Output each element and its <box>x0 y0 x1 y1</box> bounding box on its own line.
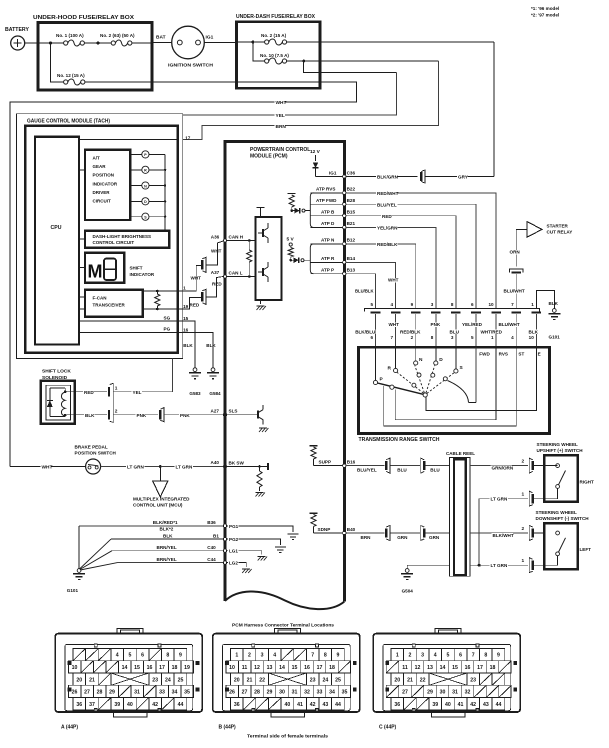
svg-text:WHT: WHT <box>211 248 222 253</box>
svg-text:16: 16 <box>465 665 471 671</box>
wire into upshift box pin2 <box>534 465 544 467</box>
PG1 internal ground in PCM <box>227 526 293 532</box>
TRS contact N <box>415 347 417 361</box>
svg-text:10: 10 <box>488 302 494 307</box>
svg-text:41: 41 <box>458 702 464 708</box>
svg-text:1: 1 <box>522 558 525 564</box>
shift indicator box <box>85 253 124 283</box>
transmission range switch box <box>358 347 549 433</box>
svg-text:CAN H: CAN H <box>229 235 244 240</box>
svg-text:INDICATOR: INDICATOR <box>93 181 118 186</box>
svg-text:C40: C40 <box>207 545 216 550</box>
svg-text:1: 1 <box>396 653 399 659</box>
wire SUPP B16 <box>314 465 345 467</box>
svg-text:STEERING WHEEL: STEERING WHEEL <box>537 442 579 447</box>
wire GRN/ORN to upshift switch <box>470 465 528 467</box>
svg-text:15: 15 <box>134 665 140 671</box>
CAN bus termination resistor PCM <box>247 250 252 262</box>
wire CPU to A/T driver box <box>79 169 85 171</box>
svg-text:B12: B12 <box>347 238 356 243</box>
ground wires converge to G101 left <box>78 526 80 569</box>
svg-text:2: 2 <box>115 409 118 415</box>
wire PNK to PCM A27 <box>164 414 223 416</box>
svg-text:16: 16 <box>147 665 153 671</box>
PCM bottom break wave <box>225 592 344 610</box>
TRS wiper arm solid <box>378 383 424 394</box>
wire RVS terminal <box>384 347 517 426</box>
svg-text:PCM Harness Connector Terminal: PCM Harness Connector Terminal Locations <box>232 622 334 628</box>
wire BLU/WHT relay to column 8 <box>515 274 517 309</box>
diode lower <box>291 259 294 261</box>
svg-text:7: 7 <box>311 653 314 659</box>
svg-text:PNK: PNK <box>137 413 147 418</box>
svg-text:YEL/RED: YEL/RED <box>462 322 483 327</box>
svg-text:40: 40 <box>445 702 451 708</box>
ground G583 <box>193 368 197 372</box>
wire WHT connector to A36 <box>206 241 223 265</box>
transceiver ground hatch <box>260 300 262 304</box>
svg-text:LEFT: LEFT <box>580 547 592 552</box>
svg-text:BLK: BLK <box>206 343 216 348</box>
wire RED solenoid pin1 <box>75 391 107 393</box>
svg-text:44: 44 <box>178 702 184 708</box>
transistor Q2 <box>262 268 264 276</box>
svg-text:12 V: 12 V <box>310 149 321 155</box>
svg-text:14: 14 <box>440 665 446 671</box>
multiplex integrated control unit triangle <box>153 481 168 497</box>
svg-text:CPU: CPU <box>51 225 62 231</box>
svg-text:11: 11 <box>402 665 408 671</box>
svg-text:15: 15 <box>452 665 458 671</box>
svg-text:3: 3 <box>431 302 434 307</box>
wire GRN to cable reel <box>426 532 450 534</box>
wire SG to pin 15 <box>79 320 178 322</box>
svg-text:MODULE (PCM): MODULE (PCM) <box>250 154 288 160</box>
dash-light brightness control circuit box <box>85 231 169 248</box>
connector terminal column 2 <box>391 311 401 313</box>
svg-text:RED: RED <box>382 214 392 219</box>
connector A (44P) shell <box>55 634 202 712</box>
svg-text:ATP N: ATP N <box>321 238 335 243</box>
wire junction down to fuse 12 <box>51 43 64 82</box>
TRS contact S <box>455 347 457 369</box>
wire pin15 BLK to ground G583 <box>178 321 195 368</box>
svg-text:RVS: RVS <box>499 352 508 357</box>
svg-text:B36: B36 <box>207 520 216 525</box>
svg-text:8: 8 <box>166 653 169 659</box>
svg-text:39: 39 <box>432 702 438 708</box>
shift lock solenoid coil <box>61 392 65 416</box>
powertrain control module box <box>225 142 344 602</box>
wire BLK/GRN - GRY from C36 <box>346 176 418 178</box>
svg-text:4: 4 <box>434 653 437 659</box>
svg-text:6: 6 <box>459 653 462 659</box>
svg-text:9: 9 <box>411 302 414 307</box>
svg-text:35: 35 <box>184 690 190 696</box>
wire F-CAN to pin 1 <box>143 290 178 292</box>
svg-text:BRN/YEL: BRN/YEL <box>157 557 177 562</box>
svg-text:No. 1 (100 A): No. 1 (100 A) <box>56 33 84 38</box>
svg-text:17: 17 <box>477 665 483 671</box>
pin A36 CAN H <box>223 239 226 242</box>
svg-text:YEL: YEL <box>133 390 142 395</box>
svg-text:TRANSMISSION RANGE SWITCH: TRANSMISSION RANGE SWITCH <box>359 437 440 443</box>
svg-text:C44: C44 <box>207 557 216 562</box>
svg-text:2: 2 <box>522 459 525 465</box>
wire fuse2 output to right <box>287 41 494 43</box>
connector B (44P) shell <box>213 634 360 712</box>
svg-text:31: 31 <box>452 690 458 696</box>
svg-text:B16: B16 <box>347 460 356 465</box>
A/T gear position indicator driver circuit box <box>85 150 130 220</box>
transistor Q1 <box>262 229 264 237</box>
wire LT GRN junction to A40 <box>160 466 223 468</box>
svg-text:22: 22 <box>259 677 265 683</box>
svg-text:BLK/BLU: BLK/BLU <box>355 329 376 334</box>
svg-text:BLU/WHT: BLU/WHT <box>504 289 525 294</box>
ground G101 right <box>552 309 556 313</box>
svg-text:13: 13 <box>427 665 433 671</box>
svg-text:G584: G584 <box>209 391 221 396</box>
svg-text:6: 6 <box>471 302 474 307</box>
wire ATP N B12 <box>310 243 344 245</box>
wire YEL/GRN ATP D to column 4 <box>346 227 436 308</box>
svg-text:2: 2 <box>522 526 525 532</box>
svg-text:YEL: YEL <box>276 113 285 119</box>
svg-text:44: 44 <box>335 702 341 708</box>
svg-text:WHT: WHT <box>276 100 287 106</box>
svg-text:B22: B22 <box>347 187 356 192</box>
pin A37 CAN L <box>223 275 226 278</box>
svg-text:25: 25 <box>178 677 184 683</box>
wire to fuses junction <box>237 41 265 43</box>
svg-text:POSITION: POSITION <box>93 173 115 178</box>
svg-text:LT GRN: LT GRN <box>491 563 508 568</box>
ignition switch <box>172 26 205 59</box>
svg-text:5: 5 <box>471 335 474 340</box>
wire BRN/YEL LG1 <box>112 550 223 552</box>
connector B (44P) grid <box>231 648 244 660</box>
SUPP pull-up resistor <box>310 445 318 447</box>
SLS transistor ground <box>259 427 267 429</box>
svg-text:BRN: BRN <box>276 124 287 130</box>
svg-text:G101: G101 <box>67 588 79 593</box>
svg-text:RED/BLK: RED/BLK <box>377 242 398 247</box>
wire LT GRN upshift pin 1 <box>479 499 528 566</box>
pull-up resistor upper <box>288 193 296 195</box>
svg-text:33: 33 <box>317 690 323 696</box>
wire RED ATP B to column 5 <box>346 216 456 309</box>
wire WHT fuse12 run (down left side to brake switch) <box>10 82 357 467</box>
svg-text:RED/WHT: RED/WHT <box>377 191 399 196</box>
CAN transceiver box in PCM <box>256 217 282 300</box>
svg-text:3: 3 <box>261 653 264 659</box>
svg-text:1: 1 <box>531 302 534 307</box>
svg-text:SG: SG <box>164 315 171 320</box>
svg-text:5: 5 <box>370 302 373 307</box>
connector upshift pin 1 <box>529 491 533 506</box>
wire to MCU <box>159 467 161 482</box>
svg-text:G101: G101 <box>549 334 561 339</box>
svg-text:YEL/GRN: YEL/GRN <box>377 226 398 231</box>
svg-text:LG2: LG2 <box>229 561 238 566</box>
svg-text:PG: PG <box>164 327 171 332</box>
svg-text:20: 20 <box>76 677 82 683</box>
wire fuse10 branch <box>304 61 397 73</box>
svg-text:No. 12 (15 A): No. 12 (15 A) <box>57 73 85 78</box>
svg-text:ATP P: ATP P <box>321 268 334 273</box>
svg-text:WHT: WHT <box>389 322 400 327</box>
wire SDNP B40 <box>314 532 345 534</box>
wire YEL fuse10 branch down to shift lock <box>183 73 397 116</box>
svg-text:GRY: GRY <box>458 175 468 180</box>
lower wire color labels <box>354 330 375 334</box>
connector downshift pin 1 <box>529 558 533 573</box>
svg-text:STARTER: STARTER <box>547 223 569 228</box>
svg-text:10: 10 <box>72 665 78 671</box>
svg-text:B13: B13 <box>347 268 356 273</box>
svg-text:GRN: GRN <box>397 535 408 540</box>
svg-text:3: 3 <box>421 653 424 659</box>
svg-text:43: 43 <box>483 702 489 708</box>
wire BRN fuse10 to gauge pin 17 <box>183 61 439 139</box>
wire BLK column 9 to G101 <box>536 291 554 309</box>
svg-text:13: 13 <box>267 665 273 671</box>
svg-text:27: 27 <box>242 690 248 696</box>
svg-text:23: 23 <box>310 677 316 683</box>
svg-text:42: 42 <box>152 702 158 708</box>
svg-text:BLU: BLU <box>430 467 440 472</box>
svg-text:24: 24 <box>322 677 328 683</box>
svg-text:GRN/ORN: GRN/ORN <box>492 465 514 470</box>
svg-text:7: 7 <box>511 302 514 307</box>
svg-text:ATP B: ATP B <box>321 210 335 215</box>
svg-text:20: 20 <box>234 677 240 683</box>
connector C (44P) grid <box>391 648 404 660</box>
indicator lamp N <box>130 185 142 187</box>
svg-text:23: 23 <box>152 677 158 683</box>
svg-text:15: 15 <box>183 316 189 321</box>
svg-text:25: 25 <box>335 677 341 683</box>
connector terminal column 8 <box>511 311 521 313</box>
svg-text:BLK*2: BLK*2 <box>160 526 174 531</box>
connector bar (14P connector to TRS) <box>365 309 540 312</box>
svg-text:IG1: IG1 <box>206 35 214 41</box>
connector PNK inline <box>160 408 164 422</box>
svg-text:8: 8 <box>484 653 487 659</box>
svg-text:BLK: BLK <box>163 533 173 538</box>
svg-text:28: 28 <box>254 690 260 696</box>
svg-text:2: 2 <box>409 653 412 659</box>
svg-text:B1: B1 <box>213 533 219 538</box>
connector C (44P) shell <box>373 634 520 712</box>
svg-text:RED: RED <box>212 281 222 286</box>
svg-text:BRN/YEL: BRN/YEL <box>157 545 177 550</box>
svg-text:No. 2 (63) (50 A): No. 2 (63) (50 A) <box>100 33 135 38</box>
connector downshift pin 2 <box>529 526 533 541</box>
svg-text:10: 10 <box>529 335 535 340</box>
wire ATP B B15 <box>310 215 344 217</box>
svg-text:8: 8 <box>451 302 454 307</box>
svg-text:D: D <box>439 357 443 363</box>
svg-text:RED/BLK: RED/BLK <box>400 329 421 334</box>
svg-text:30: 30 <box>279 690 285 696</box>
svg-text:34: 34 <box>172 690 178 696</box>
svg-text:2: 2 <box>411 335 414 340</box>
connector upshift pin 2 <box>529 458 533 473</box>
svg-text:RED: RED <box>190 302 200 307</box>
svg-text:ATP RVS: ATP RVS <box>316 187 335 192</box>
wire BLK solenoid pin2 <box>75 414 107 416</box>
svg-text:6: 6 <box>141 653 144 659</box>
svg-text:36: 36 <box>234 702 240 708</box>
CPU box <box>35 137 79 345</box>
svg-text:B14: B14 <box>347 256 356 261</box>
wire RED/WHT ATP RVS to column 7 <box>346 193 496 309</box>
svg-text:1: 1 <box>183 286 186 291</box>
svg-text:G504: G504 <box>402 589 414 594</box>
wire LT GRN brake switch to junction <box>101 466 161 468</box>
svg-text:BRN: BRN <box>361 535 372 540</box>
svg-text:A40: A40 <box>211 460 220 465</box>
connector SDNP half A <box>386 526 390 541</box>
connector terminal column 1 <box>371 311 381 313</box>
svg-text:40: 40 <box>285 702 291 708</box>
svg-text:A (44P): A (44P) <box>61 725 78 731</box>
svg-text:A27: A27 <box>211 408 220 413</box>
svg-text:21: 21 <box>407 677 413 683</box>
svg-text:SLS: SLS <box>229 409 238 414</box>
svg-text:BLU: BLU <box>450 329 460 334</box>
connector pin1-A36 <box>202 257 206 272</box>
svg-text:UPSHIFT (+) SWITCH: UPSHIFT (+) SWITCH <box>537 448 584 453</box>
wire PG to pin 16 <box>79 331 178 333</box>
svg-text:PG1: PG1 <box>229 524 239 529</box>
svg-text:BRAKE PEDAL: BRAKE PEDAL <box>75 444 108 449</box>
LG1 internal ground hatch <box>227 551 262 555</box>
svg-text:14: 14 <box>122 665 128 671</box>
svg-text:SHIFT LOCK: SHIFT LOCK <box>42 369 71 375</box>
svg-text:12: 12 <box>254 665 260 671</box>
connector SUPP half B <box>421 458 425 473</box>
indicator lamp P <box>130 153 142 155</box>
svg-text:STEERING WHEEL: STEERING WHEEL <box>536 510 578 515</box>
svg-text:ATP R: ATP R <box>321 256 335 261</box>
wire CPU to dash-light box <box>79 238 85 240</box>
svg-text:17: 17 <box>317 665 323 671</box>
connector terminal column 7 <box>491 311 501 313</box>
svg-text:18: 18 <box>172 665 178 671</box>
svg-text:32: 32 <box>304 690 310 696</box>
svg-text:UNDER-DASH FUSE/RELAY BOX: UNDER-DASH FUSE/RELAY BOX <box>236 14 316 20</box>
TRS dashed rays <box>397 372 424 393</box>
svg-text:18: 18 <box>329 665 335 671</box>
TRS intermediate contacts <box>412 383 416 387</box>
svg-text:BLU/BLK: BLU/BLK <box>355 289 374 294</box>
wire CAN H <box>227 240 256 242</box>
svg-text:5: 5 <box>446 653 449 659</box>
connector terminal column 6 <box>471 311 481 313</box>
wire LT GRN downshift pin 1 <box>470 564 528 566</box>
wire battery to under-hood box <box>25 42 38 44</box>
svg-text:10: 10 <box>229 665 235 671</box>
PG2 internal ground in PCM <box>227 539 281 545</box>
svg-text:18: 18 <box>490 665 496 671</box>
svg-text:B28: B28 <box>347 198 356 203</box>
svg-text:R: R <box>388 366 392 372</box>
svg-text:BAT: BAT <box>156 35 166 41</box>
svg-text:BLK/WHT: BLK/WHT <box>493 533 514 538</box>
svg-text:7: 7 <box>391 335 394 340</box>
svg-text:PNK: PNK <box>180 413 190 418</box>
svg-text:BK SW: BK SW <box>229 460 245 465</box>
svg-text:34: 34 <box>329 690 335 696</box>
svg-text:RIGHT: RIGHT <box>580 479 594 484</box>
wire BLU to cable reel <box>426 465 450 467</box>
svg-text:N: N <box>144 184 147 188</box>
indicator lamp R <box>130 169 142 171</box>
wire BLU/BLK ATP P to column 1 <box>346 274 376 309</box>
svg-text:CIRCUIT: CIRCUIT <box>93 199 111 204</box>
svg-text:1: 1 <box>491 335 494 340</box>
svg-text:MULTIPLEX INTEGRATED: MULTIPLEX INTEGRATED <box>133 496 190 501</box>
svg-text:26: 26 <box>72 690 78 696</box>
wire fuse2 to box edge (BAT) <box>132 42 152 44</box>
gauge control module inner box <box>25 126 178 353</box>
svg-text:17: 17 <box>159 665 165 671</box>
svg-text:DRIVER: DRIVER <box>93 190 111 195</box>
wire fuse10 output <box>287 60 439 62</box>
svg-text:BLK/RED*1: BLK/RED*1 <box>153 520 178 525</box>
wire CPU to F-CAN box <box>79 296 85 298</box>
svg-text:11: 11 <box>242 665 248 671</box>
wire ORN from relay down <box>516 229 527 266</box>
wire ST-E terminal to pivot <box>426 347 537 410</box>
svg-text:16: 16 <box>183 328 189 333</box>
svg-text:IGNITION SWITCH: IGNITION SWITCH <box>168 63 214 69</box>
svg-text:A/T: A/T <box>93 156 101 161</box>
svg-text:*2: '97 model: *2: '97 model <box>531 13 559 18</box>
svg-text:36: 36 <box>76 702 82 708</box>
connector terminal column 9 <box>532 311 542 313</box>
wire RED/BLK ATP N to column 3 <box>346 244 416 309</box>
wire CPU to shift indicator <box>79 267 85 269</box>
svg-text:CONTROL CIRCUIT: CONTROL CIRCUIT <box>93 240 135 245</box>
svg-text:5 V: 5 V <box>287 237 295 243</box>
svg-text:8: 8 <box>431 335 434 340</box>
svg-text:16: 16 <box>304 665 310 671</box>
svg-text:37: 37 <box>89 702 95 708</box>
transceiver supply bar <box>257 207 265 209</box>
wire YEL solenoid to gauge module bottom <box>113 359 172 392</box>
svg-text:9: 9 <box>337 653 340 659</box>
svg-text:5: 5 <box>128 653 131 659</box>
upshift switch contacts <box>544 465 558 467</box>
wire G504 from cable reel <box>407 565 449 568</box>
connector C36 inline <box>421 170 425 183</box>
svg-text:BLK: BLK <box>183 343 193 348</box>
svg-text:23: 23 <box>470 677 476 683</box>
wire BLU/YEL to connector <box>346 465 385 467</box>
svg-text:CONTROL UNIT (MCU): CONTROL UNIT (MCU) <box>133 503 183 508</box>
wire BLK/WHT to downshift switch <box>470 532 528 534</box>
svg-text:M: M <box>88 262 103 282</box>
wire battery feed inside box <box>38 42 64 44</box>
wire pin19 RED to connector <box>178 297 202 309</box>
svg-text:4: 4 <box>273 653 276 659</box>
wire GRY vertical from fuse No.2 <box>493 42 495 177</box>
svg-text:BLK: BLK <box>85 413 95 418</box>
